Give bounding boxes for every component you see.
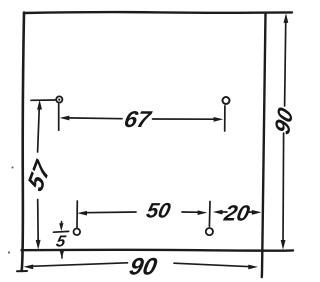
dimension 5 lower arrowhead <box>60 251 64 259</box>
dimension 90 bottom left arrowhead <box>24 265 34 270</box>
dimension 5 reference tick at hole H3 center line <box>54 230 69 233</box>
dimension 50 right arrowhead <box>198 210 208 215</box>
plate left edge <box>22 13 24 272</box>
hole H2 top-right <box>223 97 230 104</box>
svg-text:20: 20 <box>221 201 252 226</box>
dimension 5 lower stem <box>61 255 63 258</box>
dimension 20 line left segment <box>220 211 227 213</box>
dimension 67 left arrowhead <box>60 116 70 121</box>
hole H1 center dot <box>58 99 60 101</box>
plate bottom edge <box>22 249 294 252</box>
dimension 90 right vertical line lower segment <box>282 133 285 245</box>
svg-text:90: 90 <box>270 104 298 138</box>
hole H3 bottom-left <box>74 229 81 236</box>
dimension 67 line right segment <box>153 118 217 120</box>
svg-text:67: 67 <box>122 106 154 132</box>
dimension 90 right vertical line upper segment <box>285 18 286 107</box>
stray ink speck left margin upper <box>12 167 14 169</box>
dimension 90 bottom right arrowhead <box>248 265 258 270</box>
dimension 67 right arrowhead <box>214 117 224 122</box>
plate left edge foot serif <box>17 270 27 272</box>
dimension 57 upper arrowhead <box>37 100 42 110</box>
dimension 20 line right segment <box>249 211 255 213</box>
dimension 90 right upper arrowhead <box>284 13 289 23</box>
hole H1 top-left <box>56 96 62 102</box>
dimension 90 bottom line right segment <box>174 263 251 267</box>
dimension 90 bottom line left segment <box>31 263 128 267</box>
svg-text:5: 5 <box>55 233 69 251</box>
plate top edge <box>24 11 292 14</box>
dimension 57 lower arrowhead <box>36 240 41 250</box>
dimension 5 upper stem <box>60 222 62 227</box>
dimension 90 right lower arrowhead <box>281 240 286 250</box>
dimension 20 left arrowhead <box>213 210 223 215</box>
svg-text:50: 50 <box>144 200 172 223</box>
dimension 20 right arrowhead <box>252 210 262 215</box>
stray ink speck left margin lower <box>8 251 10 253</box>
extension line above hole H3 for 50 dimension <box>76 201 78 228</box>
extension line below hole H2 for 67 dimension <box>224 106 226 131</box>
extension line above hole H4 (cross) for 50 and 20 dimensions <box>208 202 211 227</box>
hole H4 bottom-right <box>206 228 213 235</box>
dimension 57 line upper segment <box>38 104 40 152</box>
extension line below hole H1 for 67 dimension <box>58 104 60 130</box>
dimension 5 upper arrowhead <box>59 223 63 231</box>
dimension 67 line left segment <box>67 117 122 120</box>
svg-text:57: 57 <box>23 155 56 196</box>
dimension 50 line right segment <box>182 211 202 213</box>
plate right edge <box>262 13 266 277</box>
dimension 50 line left segment <box>85 211 136 214</box>
dimension 57 line lower segment <box>37 200 40 245</box>
dimension 50 left arrowhead <box>77 211 87 216</box>
svg-text:90: 90 <box>127 254 160 281</box>
extension line from hole H1 to 57 dimension <box>31 99 56 101</box>
